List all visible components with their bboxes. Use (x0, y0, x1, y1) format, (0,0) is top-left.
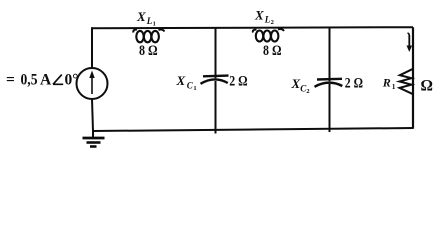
label C2 value 2 ohm (345, 75, 363, 91)
label R1 value ohm (421, 78, 433, 95)
wire bottom horizontal (93, 128, 414, 131)
svg-text:1: 1 (392, 82, 396, 91)
inductor L1 coil (133, 30, 164, 43)
wire C2 branch top (329, 27, 331, 81)
label source value 0,5 A angle 0 (6, 72, 78, 89)
svg-text:1: 1 (153, 20, 156, 27)
wire left branch bottom stub (92, 99, 93, 131)
svg-text:X: X (176, 73, 186, 88)
label XL2 (254, 8, 274, 26)
svg-text:2 Ω: 2 Ω (229, 73, 247, 89)
svg-text:1: 1 (193, 85, 196, 92)
ground (83, 131, 105, 147)
svg-text:A: A (40, 72, 52, 89)
wire left branch top stub (91, 27, 93, 68)
svg-text:0°: 0° (65, 72, 79, 89)
label XC2 (291, 76, 310, 95)
label XL1 (136, 9, 156, 27)
label L2 value 8 ohm (263, 43, 282, 59)
wire right branch (412, 27, 414, 128)
svg-text:X: X (136, 9, 146, 24)
wire C1 branch top (215, 28, 217, 79)
svg-text:=: = (6, 72, 15, 89)
svg-text:8 Ω: 8 Ω (263, 43, 282, 59)
resistor R1 zigzag (400, 69, 414, 94)
svg-text:8 Ω: 8 Ω (139, 43, 158, 59)
svg-text:2 Ω: 2 Ω (345, 75, 363, 91)
svg-text:Ω: Ω (421, 78, 433, 95)
svg-text:2: 2 (271, 19, 274, 26)
wire top horizontal (92, 27, 413, 28)
svg-text:X: X (291, 76, 301, 91)
current source I = 0,5 A (77, 68, 108, 99)
capacitor C1 (201, 76, 229, 84)
svg-text:0,5: 0,5 (21, 72, 38, 89)
wire C2 branch bottom (329, 84, 331, 132)
svg-text:2: 2 (306, 88, 309, 95)
label R1 (382, 75, 396, 91)
svg-text:X: X (254, 8, 264, 23)
capacitor C2 (315, 79, 343, 87)
inductor L2 coil (253, 29, 284, 42)
current direction arrow (407, 33, 413, 52)
svg-text:R: R (382, 75, 391, 89)
label C1 value 2 ohm (229, 73, 247, 89)
label L1 value 8 ohm (139, 43, 158, 59)
wire C1 branch bottom (215, 81, 217, 134)
label XC1 (176, 73, 197, 92)
